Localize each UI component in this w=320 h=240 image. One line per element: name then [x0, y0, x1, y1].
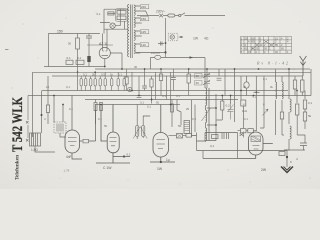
wire drop x256: [255, 76, 257, 131]
wire drop x275: [275, 69, 277, 135]
tube V5 envelope: [249, 132, 264, 155]
wire V3 leads: [101, 105, 113, 164]
svg-text:220: 220: [141, 5, 146, 9]
wire anode top left: [104, 9, 129, 33]
svg-text:2W: 2W: [261, 168, 267, 172]
wire tone box top: [205, 133, 238, 159]
wire left drop x41: [41, 91, 43, 134]
wire drop x139: [138, 76, 140, 100]
svg-text:0,1: 0,1: [127, 153, 132, 157]
junction dot i: [258, 68, 260, 70]
wire bus y99: [85, 99, 238, 101]
junction dots on buses: [53, 66, 298, 106]
capacitor C mid b: [142, 86, 147, 91]
table column lines: [244, 37, 286, 54]
wire left terminal: [27, 96, 29, 139]
svg-text:0,1: 0,1: [118, 73, 122, 77]
right mid vertical drops: [225, 69, 268, 133]
switch S2 contact: [179, 14, 181, 16]
wire bus y95: [28, 95, 311, 97]
table X marks: [251, 40, 274, 50]
resistor R row f: [104, 79, 106, 87]
tube V4 envelope: [153, 133, 169, 158]
resistor R left: [46, 105, 49, 113]
mid components cluster: [125, 69, 176, 105]
ground chassis arrow: [281, 167, 293, 173]
wire osc right column: [206, 94, 216, 141]
wire heater return: [87, 44, 113, 46]
wire drop x264: [260, 76, 264, 128]
coil winding det1: [276, 82, 277, 99]
resistor R row c: [90, 79, 92, 87]
resistor R row g: [111, 79, 113, 87]
wire drop x132: [131, 72, 133, 90]
resistor R row e: [99, 79, 101, 87]
junction dot o: [138, 95, 140, 97]
label tap 150 boxed: [140, 17, 149, 21]
svg-text:30: 30: [196, 81, 200, 85]
junction dot j: [288, 68, 290, 70]
tube V2: [65, 96, 96, 160]
resistor R above V5 b: [248, 129, 254, 133]
arrow on wire: [190, 56, 194, 58]
wire left drop x48: [47, 76, 49, 124]
wire drop x155: [155, 72, 157, 99]
svg-text:30: 30: [196, 74, 200, 78]
svg-text:C 1W: C 1W: [103, 166, 112, 170]
resistor R ant1: [293, 80, 296, 89]
output transformer Tr4 primary: [290, 99, 291, 112]
svg-text:0,1: 0,1: [176, 94, 180, 98]
contact marks left: [26, 121, 29, 142]
antenna right: [300, 56, 307, 76]
trimmer capacitor C trim2: [203, 80, 210, 85]
resistor R coupling: [186, 134, 192, 138]
svg-text:0,5: 0,5: [101, 73, 105, 77]
wire V4 leads: [150, 105, 175, 163]
svg-text:2x0,05: 2x0,05: [151, 51, 160, 55]
wire lamp branch vertical: [165, 18, 167, 58]
speaker LS1: [30, 133, 41, 146]
resistor R V3 grid b: [100, 103, 103, 111]
wire speaker bottom: [35, 146, 55, 152]
svg-text:0,1: 0,1: [69, 107, 73, 111]
label 30pF a: [195, 74, 203, 79]
wire bottom tap: [136, 52, 166, 54]
wire top right segment: [151, 56, 234, 142]
tube V5: [238, 132, 273, 159]
resistor R mid3: [159, 74, 162, 81]
svg-text:10: 10: [46, 85, 50, 89]
label tap 125 boxed: [140, 30, 149, 34]
transformer Tr1 mains: [128, 5, 166, 59]
svg-text:150: 150: [141, 17, 146, 21]
top-right tube table: [241, 37, 292, 54]
wire tick x256: [254, 91, 260, 93]
resistor R row a: [80, 79, 82, 87]
svg-text:1W: 1W: [157, 167, 163, 171]
svg-text:50: 50: [156, 101, 160, 105]
wire drop x126: [126, 69, 128, 91]
svg-text:1,78: 1,78: [64, 169, 70, 173]
dust specks: [12, 4, 311, 185]
junction dot g: [206, 68, 208, 70]
svg-text:125: 125: [141, 30, 146, 34]
capacitor C out: [284, 143, 307, 151]
svg-text:110: 110: [141, 43, 146, 47]
coil winding det2: [282, 82, 283, 99]
resistor R block 1: [117, 11, 126, 15]
resistor R mid4: [187, 74, 190, 83]
svg-text:50: 50: [68, 42, 72, 46]
transformer secondary winding 3: [134, 30, 135, 40]
wire coupling: [169, 135, 197, 137]
wire osc leads: [205, 106, 207, 143]
capacitor C V2 grid: [83, 139, 89, 143]
svg-text:0,1: 0,1: [263, 77, 267, 81]
svg-text:0,1: 0,1: [77, 56, 82, 60]
wire rectifier bottom: [104, 59, 106, 67]
tube V2 electrodes: [68, 138, 77, 146]
svg-text:220V~: 220V~: [156, 10, 165, 14]
svg-text:50: 50: [104, 124, 108, 128]
resistor R on line 1: [66, 60, 73, 64]
svg-text:4nF: 4nF: [66, 155, 72, 159]
svg-text:0,1: 0,1: [210, 144, 215, 148]
resistor R agc: [241, 100, 246, 106]
wire left drop x54: [53, 96, 55, 123]
wire drop x144: [144, 69, 146, 86]
svg-text:0,1: 0,1: [66, 85, 70, 89]
resistor R mixer: [171, 104, 174, 112]
wire tone mid: [197, 133, 206, 142]
svg-text:Rv 8·1-42: Rv 8·1-42: [256, 61, 288, 66]
resistor R out1: [296, 104, 299, 115]
svg-text:50: 50: [178, 124, 182, 128]
resistor R series: [108, 12, 114, 15]
wire af vertical: [197, 141, 204, 159]
wire mains line top: [137, 15, 225, 17]
coil tuning arrow: [202, 108, 211, 121]
svg-text:0,1: 0,1: [162, 94, 166, 98]
wire osc taps: [207, 108, 216, 125]
wire osc resistor: [216, 96, 222, 121]
wire drop x219: [217, 69, 222, 80]
resistor R mid1: [125, 77, 128, 84]
svg-text:K: K: [290, 160, 292, 164]
oval component y57: [155, 55, 161, 59]
svg-text:4Ω: 4Ω: [204, 37, 209, 41]
wire af lower: [203, 158, 238, 160]
transformer Tr3 winding a: [136, 126, 139, 137]
svg-text:150: 150: [57, 30, 63, 34]
wire row drops: [81, 72, 124, 90]
wire secondary bottom: [284, 139, 289, 150]
tube V5 electrodes: [253, 146, 260, 150]
resistor R det2: [280, 112, 283, 119]
wire pilot: [115, 23, 120, 26]
tube V1 anode pins: [103, 48, 108, 51]
wire V3 branch: [113, 156, 130, 158]
tube V3: [94, 100, 130, 164]
transformer Tr3 arrows: [133, 127, 147, 139]
capacitor C mid a: [137, 96, 142, 98]
resistor R out3: [303, 112, 306, 121]
junction dot r: [62, 104, 64, 106]
wire bus y69: [95, 68, 310, 70]
wire drop x234: [234, 69, 236, 122]
enclosure and buses: [28, 34, 311, 105]
resistor R mains divider: [76, 38, 80, 49]
junction dot p: [230, 95, 232, 97]
capacitor C coupling: [177, 134, 183, 139]
oscillator coil L3: [206, 128, 207, 141]
resistor R row d: [94, 79, 96, 87]
svg-text:1μ: 1μ: [166, 158, 170, 162]
capacitor C padder: [228, 104, 234, 120]
switch S1 mains: [159, 14, 163, 18]
wire V3 grid drops: [96, 100, 102, 125]
transformer secondary winding 2: [134, 17, 135, 27]
lamp pilot circle: [110, 23, 115, 28]
wire rectifier output right: [110, 53, 122, 69]
antenna symbol: [300, 56, 307, 76]
wire V2 leads: [72, 96, 83, 160]
svg-text:25: 25: [186, 107, 190, 111]
wire drop x297: [296, 91, 298, 104]
output section right: [217, 69, 311, 167]
ground arrow inner: [284, 167, 291, 171]
oscillator coil L2: [206, 110, 207, 123]
wire drop x151: [151, 76, 153, 104]
junction dot osc a: [215, 107, 217, 109]
wire box top-left outline: [49, 34, 101, 67]
paper mark left edge: [5, 49, 9, 51]
transformer secondary winding 4: [134, 43, 135, 53]
resistor R osc: [221, 101, 224, 110]
coil core line: [208, 88, 209, 140]
wire to ground: [286, 150, 288, 167]
junction dot k: [131, 90, 133, 92]
table cell entries: [241, 36, 289, 54]
junction dot u: [151, 99, 153, 101]
wire V2 grid cont: [89, 105, 96, 142]
potentiometer arrow: [263, 109, 269, 116]
wire drop x166: [166, 76, 168, 100]
wire heater bottom: [103, 29, 108, 48]
resistor R out2: [303, 100, 306, 109]
lamp La1 dial light: [168, 33, 178, 41]
label tap 220 boxed: [140, 5, 149, 9]
wire drop x282: [282, 76, 284, 135]
junction dot c: [94, 71, 96, 73]
junction dot V3 cathode: [123, 155, 125, 157]
svg-text:0,3: 0,3: [192, 117, 196, 121]
pickup jack: [240, 132, 244, 138]
output transformer Tr4 secondary: [290, 126, 291, 139]
junction dot d: [144, 68, 146, 70]
junction dot lamp branch: [165, 42, 167, 44]
junction dot V4 cathode: [160, 161, 162, 163]
wire V3 bottom line: [96, 162, 130, 164]
svg-text:AZ 11: AZ 11: [99, 42, 108, 46]
resistor R V3 grid a: [94, 103, 97, 111]
wire out connections: [289, 109, 305, 129]
tube V4 electrodes: [157, 140, 166, 149]
resistor R row h: [117, 79, 119, 87]
svg-text:0,1: 0,1: [244, 117, 248, 121]
wire IF to tube: [60, 133, 66, 137]
capacitor C mains left: [158, 42, 164, 46]
wire bus y76: [52, 75, 303, 77]
junction dot a: [104, 66, 106, 68]
wire V5 leads: [238, 144, 273, 159]
wire drop x225: [224, 69, 226, 96]
resistor R block 2: [117, 16, 126, 20]
tube V4: [150, 105, 175, 164]
wire anode 2: [108, 13, 116, 15]
junction dot h: [234, 68, 236, 70]
wire bus y104: [95, 104, 180, 106]
label tap 110 boxed: [140, 43, 149, 47]
junction dot x256: [255, 91, 257, 93]
junction dot q: [253, 95, 255, 97]
svg-text:1kΩ: 1kΩ: [242, 109, 247, 113]
wire secondary taps: [135, 6, 142, 53]
oscillator coil L1: [206, 88, 207, 106]
junction dot t: [170, 104, 172, 106]
wire drop x241: [241, 76, 244, 128]
scattered small labels: [44, 73, 274, 129]
tube V5 anode box: [251, 136, 261, 142]
resistor R row i: [123, 79, 125, 87]
junction dot s: [100, 104, 102, 106]
svg-text:T 542 WLK: T 542 WLK: [10, 97, 26, 152]
capacitor C tone: [222, 133, 229, 139]
oval component x246: [244, 82, 249, 88]
junction dot ground wire: [286, 156, 288, 158]
wire mixer cluster verticals: [172, 100, 195, 138]
resistor R ground: [279, 152, 285, 156]
wire tap to mains line: [137, 11, 148, 16]
junction dot e: [160, 68, 162, 70]
wire trim: [206, 69, 208, 88]
svg-text:0,1: 0,1: [98, 117, 102, 121]
svg-text:0,2: 0,2: [226, 104, 231, 108]
wire lamp arrow: [179, 36, 184, 38]
resistor R on line 2: [76, 60, 84, 64]
IF transformer Tr3: [133, 105, 150, 140]
wire heater lines: [100, 9, 129, 29]
transformer Tr2 IF can: [54, 122, 66, 133]
wire drop x289: [288, 69, 290, 99]
transformer core: [131, 5, 133, 59]
wire drop x170: [170, 72, 172, 104]
tube V3 envelope: [107, 132, 119, 153]
junction dot n: [53, 95, 55, 97]
wire right bottom: [297, 125, 305, 143]
junction dot divider: [77, 71, 79, 73]
AF coupling network: [169, 132, 288, 159]
svg-text:0,1: 0,1: [67, 56, 72, 60]
wire divider: [77, 34, 79, 91]
socket circle: [128, 87, 132, 91]
resistor row under buses: [80, 72, 125, 90]
junction dot f: [188, 68, 190, 70]
fuse F1: [168, 14, 175, 17]
trimmer capacitor C trim1: [187, 69, 210, 96]
svg-text:5k: 5k: [308, 114, 312, 118]
wire drop x173: [172, 69, 174, 77]
transformer Tr3 winding b: [142, 126, 145, 137]
wire left drop x32: [32, 72, 34, 137]
junction dot osc b: [215, 124, 217, 126]
mid-left section: [26, 72, 66, 152]
label 30pF b: [195, 81, 203, 86]
junction dot m: [296, 90, 298, 92]
tube V1 rectifier AZ11: [99, 47, 110, 58]
tube V3 electrodes: [110, 138, 117, 146]
svg-text:0,1: 0,1: [83, 73, 87, 77]
resistor R mid2: [150, 79, 153, 87]
junction dot v: [221, 95, 223, 97]
capacitor C heater: [86, 34, 92, 48]
wire mid45: [188, 69, 190, 96]
svg-text:0,1: 0,1: [308, 101, 313, 105]
svg-text:0,1: 0,1: [140, 101, 144, 105]
junction dot x41: [41, 114, 43, 116]
svg-text:1W: 1W: [193, 37, 199, 41]
junction dot tap join: [164, 51, 166, 53]
table frame: [241, 37, 292, 54]
wire drop x305: [304, 91, 306, 100]
wire af bottom long: [197, 150, 288, 152]
wire right edge vertical: [310, 69, 312, 96]
junction dot l: [240, 90, 242, 92]
choke RF block: [184, 121, 190, 134]
wire y61 branch: [151, 58, 206, 89]
svg-text:30: 30: [134, 65, 138, 69]
svg-text:0,1: 0,1: [97, 12, 101, 16]
capacitor C electrolytic: [87, 56, 90, 62]
wire line under rectifier: [44, 66, 105, 68]
tube V1 cathode: [102, 55, 109, 57]
svg-text:Telefunken: Telefunken: [15, 154, 21, 180]
resistor block enclosure: [115, 9, 127, 22]
svg-text:0,1: 0,1: [147, 105, 151, 109]
transformer primary winding: [128, 5, 129, 57]
svg-text:40: 40: [243, 85, 247, 89]
wire drop x161: [160, 69, 162, 96]
wire Tr3 leads: [137, 105, 150, 140]
wire V5 grid: [238, 130, 257, 132]
resistor R tone1: [212, 135, 219, 139]
wire bus y72: [33, 71, 312, 73]
junction dot b: [121, 68, 123, 70]
tube V2 envelope: [65, 130, 80, 153]
resistor R above V5 a: [241, 129, 247, 133]
svg-text:1,5Ω: 1,5Ω: [31, 148, 38, 152]
table row lines: [241, 40, 292, 50]
resistor R row b: [85, 79, 87, 87]
resistor R ant2: [301, 80, 304, 92]
wire padder: [230, 95, 232, 120]
wire IF can drop: [62, 105, 64, 123]
wire bus y90: [42, 90, 288, 92]
transformer secondary winding 1: [134, 5, 135, 15]
rectifier section top-left: [86, 9, 129, 69]
capacitor C mid c: [171, 78, 176, 91]
